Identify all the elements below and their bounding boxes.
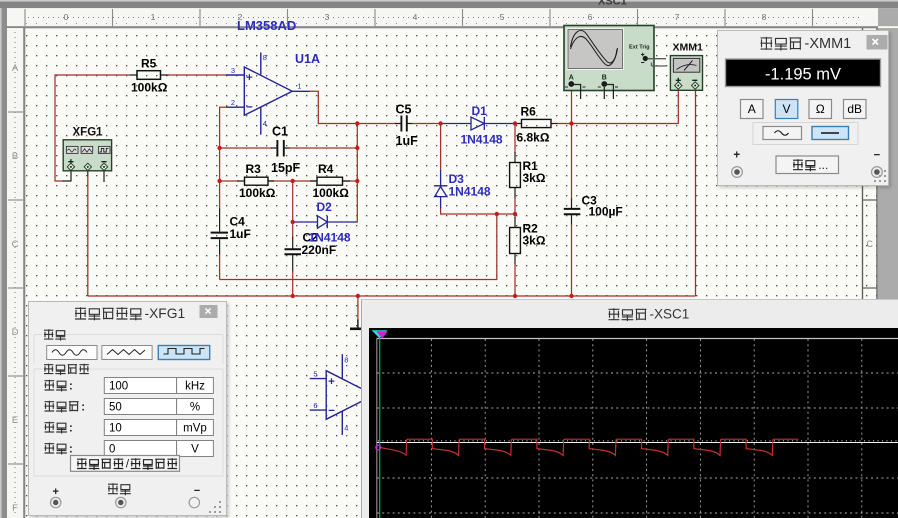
- op-amp U1B: [310, 354, 374, 435]
- svg-text:Ω: Ω: [815, 102, 824, 116]
- node junction R2 ground: [513, 294, 517, 298]
- capacitor C2 plates: [285, 249, 302, 254]
- wire XMM1 minus down: [695, 88, 697, 296]
- function generator panel XFG1: [28, 301, 227, 516]
- svg-text:1: 1: [297, 82, 301, 91]
- wire right feedback column: [355, 124, 357, 223]
- svg-text:5: 5: [313, 370, 317, 379]
- svg-text:0: 0: [109, 443, 115, 455]
- op-amp U1A: [226, 53, 310, 135]
- capacitor C3 plates: [564, 209, 581, 214]
- svg-text:XFG1: XFG1: [73, 127, 104, 139]
- wire corner down to XFG1 plus: [55, 74, 63, 181]
- svg-text:6: 6: [313, 401, 317, 410]
- svg-text:-XSC1: -XSC1: [650, 306, 690, 321]
- XMM1 display: [725, 59, 880, 87]
- wire C2 to rail B: [292, 271, 294, 297]
- wire R5 to U1A pin3: [130, 74, 169, 76]
- wire R3 row left: [220, 180, 358, 182]
- wire XFG1 plus terminal lead: [63, 170, 72, 182]
- button set rise/fall: [71, 455, 180, 471]
- instrument XMM1 icon: [670, 56, 702, 91]
- svg-text:...: ...: [818, 158, 828, 172]
- scope waveform trace channel A: [381, 439, 799, 455]
- node junction output net: [355, 121, 359, 125]
- capacitor C4 plates: [211, 233, 228, 239]
- node junction R1-R2: [513, 212, 517, 216]
- svg-text:XMM1: XMM1: [673, 42, 703, 54]
- svg-text:4: 4: [344, 423, 348, 432]
- resistor R2: [510, 228, 521, 254]
- group signal options: [34, 369, 223, 476]
- resistor R4: [317, 177, 343, 185]
- diode D1: [441, 117, 514, 130]
- svg-text:1uF: 1uF: [396, 134, 419, 148]
- svg-text:+: +: [733, 150, 740, 162]
- svg-text:15pF: 15pF: [271, 161, 301, 175]
- svg-text:Ext Trig: Ext Trig: [629, 45, 650, 51]
- svg-text:B: B: [602, 74, 607, 81]
- node junction ground stub: [356, 294, 360, 298]
- XMM1 mode buttons: [740, 100, 763, 119]
- XMM1 AC DC buttons: [753, 123, 858, 145]
- svg-text:R5: R5: [141, 56, 157, 70]
- wire C3 column: [571, 124, 573, 200]
- svg-text:3: 3: [231, 66, 235, 75]
- capacitor C1 leads: [271, 147, 290, 149]
- wire R1 column: [514, 124, 516, 154]
- svg-text:+: +: [52, 486, 58, 498]
- wire ground rail B bottom: [88, 295, 696, 297]
- svg-text:C1: C1: [272, 124, 288, 138]
- wire R2 column: [514, 214, 516, 218]
- svg-text:C5: C5: [396, 103, 412, 117]
- svg-text:−: −: [873, 150, 880, 162]
- node junction R6-R1: [513, 121, 517, 125]
- svg-text:R4: R4: [318, 162, 334, 176]
- svg-text:R3: R3: [246, 162, 262, 176]
- wire C1 right: [289, 147, 357, 149]
- svg-text:8: 8: [344, 355, 348, 364]
- node junction channel A / C3: [569, 121, 573, 125]
- svg-text:3kΩ: 3kΩ: [523, 171, 546, 185]
- svg-text:U1A: U1A: [295, 52, 320, 66]
- resistor R3: [245, 177, 269, 185]
- node junction C1 left: [217, 146, 221, 150]
- wire R3R4 junction down to D2 anode: [292, 181, 294, 222]
- ground wire stub: [357, 296, 359, 321]
- op-amp U1A pin numbers: [231, 53, 302, 128]
- resistor R1: [510, 163, 521, 188]
- svg-text:100kΩ: 100kΩ: [131, 80, 168, 94]
- svg-text:3kΩ: 3kΩ: [523, 233, 546, 247]
- svg-text:−: −: [194, 485, 200, 497]
- svg-text::: :: [81, 399, 85, 413]
- wire D3 branch: [440, 124, 442, 172]
- wire R6 right to XMM1: [557, 123, 678, 125]
- svg-text:100µF: 100µF: [589, 205, 623, 219]
- svg-text:A: A: [569, 74, 574, 81]
- diode D2: [294, 216, 357, 228]
- svg-text:V: V: [782, 102, 790, 116]
- svg-text:1uF: 1uF: [230, 227, 251, 241]
- svg-text:R6: R6: [521, 105, 537, 119]
- svg-text:50: 50: [109, 401, 122, 413]
- wire R3 R4 leads: [237, 180, 350, 182]
- multimeter panel XMM1: [717, 30, 889, 186]
- instrument XFG1 icon: [63, 140, 111, 171]
- node junction C2 ground: [291, 294, 295, 298]
- wire XFG1 common terminal down: [87, 170, 89, 177]
- svg-text:100kΩ: 100kΩ: [239, 186, 276, 200]
- resistor R5: [137, 71, 161, 80]
- node junction R4 right: [355, 179, 359, 183]
- svg-text:8: 8: [263, 53, 267, 62]
- svg-text:220nF: 220nF: [302, 243, 337, 257]
- group waveform: [34, 334, 223, 364]
- wire U1A output: [309, 91, 396, 123]
- wire rail A: [220, 279, 497, 281]
- wire vertical feedback left column: [219, 107, 221, 182]
- svg-text:2: 2: [231, 98, 235, 107]
- svg-text:4: 4: [263, 119, 267, 128]
- svg-text:%: %: [190, 401, 200, 413]
- node junction R3 left: [217, 179, 221, 183]
- svg-text:kHz: kHz: [185, 380, 205, 392]
- svg-text:6.8kΩ: 6.8kΩ: [517, 130, 550, 144]
- node junction rail A riser: [495, 212, 499, 216]
- svg-text:-1.195 mV: -1.195 mV: [764, 66, 840, 84]
- XFG1 panel terminals: [108, 483, 118, 494]
- node junction D2 anode: [291, 220, 295, 224]
- svg-text::: :: [69, 420, 73, 434]
- svg-text:1N4148: 1N4148: [309, 231, 351, 245]
- scope trace start marker: [376, 445, 381, 450]
- node junction C3 ground: [569, 294, 573, 298]
- svg-text:A: A: [747, 102, 755, 116]
- wire C1 left: [220, 147, 272, 149]
- wire U1A pin2 net: [220, 106, 226, 108]
- svg-text::: :: [69, 441, 73, 455]
- svg-text:-XFG1: -XFG1: [145, 306, 186, 321]
- wire rail A up to D3 net: [496, 214, 498, 280]
- svg-text:1N4148: 1N4148: [461, 132, 503, 146]
- wire up to XMM1 plus: [677, 88, 679, 124]
- resistor R6: [522, 119, 552, 127]
- wire C4 branch down: [219, 181, 221, 210]
- svg-text:dB: dB: [847, 102, 862, 116]
- wire D3 bottom net: [441, 208, 515, 215]
- wire scope channel A down: [571, 87, 573, 125]
- node junction C1 right: [355, 146, 359, 150]
- capacitor C5 leads: [395, 123, 413, 125]
- svg-text:1N4148: 1N4148: [449, 184, 491, 198]
- capacitor C5 plates: [401, 116, 406, 132]
- svg-text:V: V: [191, 443, 199, 455]
- svg-text:D1: D1: [472, 104, 488, 118]
- oscilloscope panel XSC1: [361, 299, 898, 518]
- wire XFG1 minus stub: [103, 170, 105, 183]
- svg-text:LM358AD: LM358AD: [237, 18, 296, 33]
- svg-text:mVp: mVp: [183, 422, 207, 434]
- resistor R6 leads: [514, 123, 558, 125]
- node junction D3 top: [438, 121, 442, 125]
- node junction R3-R4: [291, 179, 295, 183]
- XMM1 settings button: [776, 156, 839, 174]
- svg-text:100: 100: [109, 380, 128, 392]
- svg-text:100kΩ: 100kΩ: [313, 186, 350, 200]
- ground: [357, 320, 359, 329]
- svg-text:10: 10: [109, 422, 122, 434]
- diode D3: [434, 170, 447, 209]
- svg-text:D2: D2: [317, 200, 333, 214]
- wire C5 to D1: [412, 123, 442, 125]
- svg-text:-XMM1: -XMM1: [804, 36, 851, 52]
- svg-text::: :: [69, 378, 73, 392]
- instrument XSC1 icon: [564, 26, 666, 100]
- op-amp U1B pin numbers: [313, 355, 348, 432]
- wire C2 leads: [292, 222, 294, 238]
- wire input net XFG1+ to R5: [55, 74, 130, 76]
- capacitor C1 plates: [277, 140, 283, 157]
